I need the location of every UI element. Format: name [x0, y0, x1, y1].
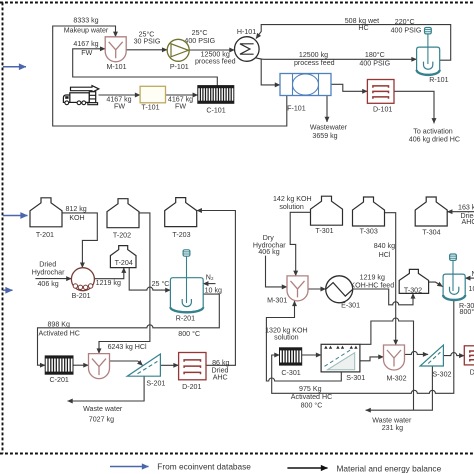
label 12500 kg process feed (P-H): [195, 50, 236, 65]
svg-text:process feed: process feed: [294, 59, 335, 67]
stream R-101 to H-101 hot return: [256, 25, 451, 61]
crusher-cooler C-301: [280, 348, 302, 365]
label 86 kg Dried AHC: [212, 359, 230, 382]
stream N2 to R-301: [465, 277, 474, 279]
svg-text:231 kg: 231 kg: [382, 424, 403, 432]
label C-201: [50, 376, 69, 384]
label 8333 kg: [73, 17, 98, 25]
svg-text:7027 kg: 7027 kg: [89, 415, 114, 423]
svg-text:30 PSIG: 30 PSIG: [134, 37, 161, 45]
label 812 kg KOH: [65, 205, 86, 222]
svg-text:B-201: B-201: [72, 292, 91, 300]
stream T-202 HCl to M-201: [99, 213, 150, 354]
tank T-203: [165, 198, 197, 227]
dryer D-303 (cut off): [464, 346, 474, 365]
svg-text:Wastewater: Wastewater: [310, 123, 348, 131]
svg-text:FW: FW: [175, 102, 186, 110]
stream dry hydrochar to M-301: [266, 256, 288, 287]
svg-text:Makeup water: Makeup water: [64, 27, 109, 35]
svg-text:HCl: HCl: [379, 251, 391, 259]
svg-text:R-101: R-101: [429, 76, 448, 84]
label E-301: [341, 302, 360, 310]
svg-text:C-201: C-201: [50, 376, 69, 384]
svg-text:400 PSIG: 400 PSIG: [184, 37, 215, 45]
label T-202: [113, 231, 131, 239]
label C-101: [206, 106, 225, 114]
mixer M-301: [287, 276, 308, 301]
svg-text:solution: solution: [274, 334, 299, 342]
motor of R-301: [450, 254, 457, 291]
svg-text:T-303: T-303: [360, 228, 378, 236]
stream H-101 to R-101 process feed: [256, 58, 417, 60]
stream T-301 KOH to M-301: [290, 212, 310, 276]
label D-303 (cut): [470, 369, 474, 377]
reactor R-101: [417, 47, 440, 75]
stream S-201 to D-201: [160, 364, 178, 366]
svg-text:M-302: M-302: [386, 375, 406, 383]
svg-text:8333 kg: 8333 kg: [73, 17, 98, 25]
heat exchanger E-301: [326, 276, 353, 303]
stream M-301 to E-301: [308, 288, 326, 290]
label Dried Hydrochar 406 kg: [32, 261, 65, 288]
label F-101: [287, 105, 306, 113]
stream T-303 HCl to M-302: [385, 213, 396, 345]
svg-text:T-101: T-101: [141, 104, 159, 112]
svg-text:KOH-HC feed: KOH-HC feed: [350, 281, 394, 289]
dryer D-201: [179, 353, 206, 380]
svg-text:25°C: 25°C: [192, 29, 208, 37]
svg-text:T-202: T-202: [113, 231, 131, 239]
stream F-101 wastewater out: [326, 96, 328, 123]
svg-text:Hydrochar: Hydrochar: [32, 268, 65, 276]
svg-text:To activation: To activation: [413, 128, 452, 136]
svg-text:400 PSIG: 400 PSIG: [391, 27, 422, 35]
svg-text:T-304: T-304: [422, 229, 440, 237]
svg-text:M-101: M-101: [106, 63, 126, 71]
svg-text:1219 kg: 1219 kg: [96, 279, 121, 287]
ecoinvent input arrow water: [3, 66, 26, 68]
crusher C-101: [198, 86, 234, 104]
svg-text:220°C: 220°C: [395, 18, 415, 26]
svg-text:H-101: H-101: [237, 28, 256, 36]
stream P-101 to H-101: [189, 49, 234, 51]
svg-text:P-101: P-101: [170, 63, 189, 71]
svg-text:S-201: S-201: [146, 380, 165, 388]
label H-101: [237, 28, 256, 36]
tank T-304: [415, 197, 447, 226]
svg-text:D-201: D-201: [182, 383, 201, 391]
label M-302: [386, 375, 406, 383]
stream dried hydrochar to B-201: [35, 278, 71, 280]
mixer M-302: [384, 345, 405, 370]
svg-text:3659 kg: 3659 kg: [312, 132, 337, 140]
stream C-201 to M-201: [73, 364, 89, 366]
label 4167 kg FW (T101-C101): [168, 95, 193, 110]
crusher-cooler C-201: [45, 356, 73, 374]
label M-301: [267, 296, 287, 304]
svg-text:AHC: AHC: [213, 374, 228, 382]
stream N2 to R-201: [203, 283, 215, 285]
label S-301: [346, 374, 365, 382]
tank T-204: [110, 246, 136, 268]
reactor R-201: [170, 278, 203, 313]
label T-201: [36, 231, 54, 239]
svg-text:800 °C: 800 °C: [178, 330, 200, 338]
label 142 kg KOH solution: [273, 195, 312, 211]
stream D-201 to T-203 recycle: [197, 211, 236, 366]
label 4167 kg FW (into M-101): [73, 40, 98, 57]
svg-text:406 kg dried HC: 406 kg dried HC: [409, 136, 460, 144]
stream S-302 to D-303: [443, 353, 464, 356]
svg-text:T-302: T-302: [404, 287, 422, 295]
label 898 Kg Activated HC: [38, 321, 79, 338]
stream T-101 to C-101: [166, 94, 198, 96]
stream R-201 to C-201 activated HC: [38, 294, 220, 365]
label M-101: [106, 63, 126, 71]
label 800 C (R-201 out): [178, 330, 200, 338]
label R-301 800C: [459, 302, 474, 316]
stream S-301 to M-302: [360, 357, 384, 361]
stream S-201 waste water: [68, 376, 145, 401]
label T-304: [422, 229, 440, 237]
svg-text:C-101: C-101: [206, 106, 225, 114]
label 1219 kg KOH-HC feed: [350, 273, 394, 289]
svg-text:process feed: process feed: [195, 57, 236, 65]
svg-text:12500 kg: 12500 kg: [299, 51, 328, 59]
svg-text:E-301: E-301: [341, 302, 360, 310]
svg-text:180°C: 180°C: [365, 51, 385, 59]
stream B-201 to T-204: [94, 268, 123, 279]
svg-text:25 °C: 25 °C: [152, 280, 170, 288]
label B-201: [72, 292, 91, 300]
svg-text:840 kg: 840 kg: [374, 242, 395, 250]
svg-text:FW: FW: [114, 102, 125, 110]
svg-text:HC: HC: [358, 24, 368, 32]
label Waste water 231 kg: [372, 416, 412, 432]
label D-201: [182, 383, 201, 391]
stream T-302 to R-301: [429, 282, 443, 287]
svg-text:T-203: T-203: [172, 231, 190, 239]
label N2 10 kg (R-301): [469, 270, 474, 293]
svg-text:S-302: S-302: [433, 371, 452, 379]
figure dashed border left: [2, 3, 4, 454]
label T-301: [315, 227, 333, 235]
label R-201: [176, 314, 195, 322]
reactor R-301: [443, 274, 465, 300]
svg-text:6243 kg HCl: 6243 kg HCl: [108, 343, 147, 351]
stream C-101 to M-101 food waste: [73, 49, 218, 86]
svg-text:S-301: S-301: [346, 374, 365, 382]
label 975 Kg Activated HC 800 C: [291, 385, 332, 410]
truck food-waste delivery icon: [63, 86, 98, 105]
svg-text:406 kg: 406 kg: [37, 280, 58, 288]
screen S-301: [321, 344, 360, 372]
svg-text:163 kg: 163 kg: [458, 203, 474, 211]
svg-text:C-301: C-301: [281, 369, 300, 377]
label To activation 406 kg dried HC: [409, 128, 460, 144]
legend arrow material and energy balance: [287, 467, 327, 469]
svg-text:10 kg: 10 kg: [205, 287, 222, 295]
heat exchanger H-101: [235, 37, 260, 62]
stream H-101 branch to F-101: [261, 59, 280, 85]
svg-text:898 Kg: 898 Kg: [47, 321, 70, 329]
stream C-301 to S-301: [302, 354, 321, 356]
label 508 kg wet HC: [345, 17, 379, 32]
legend text From ecoinvent database: [157, 462, 251, 472]
label T-302: [404, 287, 422, 295]
legend arrow from ecoinvent: [110, 466, 149, 468]
tank T-302: [399, 269, 428, 293]
figure dashed border top: [0, 2, 474, 4]
svg-text:800 °C: 800 °C: [301, 402, 323, 410]
svg-text:10 kg: 10 kg: [469, 285, 474, 293]
label 25 C 30 PSIG: [134, 30, 161, 45]
svg-text:4167 kg: 4167 kg: [73, 40, 98, 48]
svg-text:406 kg: 406 kg: [258, 248, 279, 256]
svg-text:Material and energy balance: Material and energy balance: [337, 463, 442, 473]
motor of R-101: [425, 28, 432, 65]
svg-text:N₂: N₂: [206, 273, 214, 281]
mixer M-101: [105, 37, 126, 62]
stream M-302 to S-302: [405, 351, 429, 354]
svg-text:D-101: D-101: [373, 106, 392, 114]
svg-text:FW: FW: [81, 49, 92, 57]
stream M-201 to S-201: [110, 361, 143, 365]
svg-text:From ecoinvent database: From ecoinvent database: [157, 462, 251, 472]
svg-text:975 Kg: 975 Kg: [299, 385, 322, 393]
label 180 C 400 PSIG: [359, 51, 390, 67]
label 1320 kg KOH solution: [265, 327, 308, 342]
label 4167 kg FW (truck-T101): [106, 95, 131, 110]
svg-text:1219 kg: 1219 kg: [360, 273, 385, 281]
svg-text:T-201: T-201: [36, 231, 54, 239]
label S-302: [433, 371, 452, 379]
label 840 kg HCl: [374, 242, 395, 259]
filter F-101: [280, 74, 331, 96]
svg-text:KOH: KOH: [69, 214, 84, 222]
mixer M-201: [89, 354, 110, 379]
svg-text:F-101: F-101: [287, 105, 306, 113]
label P-101: [170, 63, 189, 71]
pump P-101: [167, 39, 189, 61]
stream S-301 vent to waste: [360, 318, 414, 410]
stream S-302 waste water: [366, 366, 433, 410]
svg-text:Activated HC: Activated HC: [291, 393, 332, 401]
stream T-204 to R-201 25C: [129, 268, 170, 291]
label C-301: [281, 369, 300, 377]
label 163 kg Dried AHC: [458, 203, 474, 226]
label 25 C 400 PSIG: [184, 29, 215, 45]
stream F-101 to D-101: [331, 84, 367, 91]
label N2 10 kg: [205, 273, 222, 294]
svg-text:800°C: 800°C: [460, 308, 474, 316]
tank T-201: [30, 198, 62, 227]
label Dry Hydrochar 406 kg: [253, 234, 286, 256]
svg-text:R-201: R-201: [176, 314, 195, 322]
stream D-101 to activation: [394, 91, 434, 123]
label 25 C (R-201 feed): [152, 280, 170, 288]
tank T-303: [353, 197, 385, 226]
label 1219 kg: [96, 279, 121, 287]
stream T-201 KOH to B-201: [62, 213, 97, 268]
storage bin T-101: [140, 86, 165, 103]
label 220 C 400 PSIG: [391, 18, 422, 35]
label 6243 kg HCl: [108, 343, 147, 351]
svg-text:Waste water: Waste water: [83, 405, 123, 413]
svg-text:M-301: M-301: [267, 296, 287, 304]
separator S-302: [420, 345, 443, 366]
legend text Material and energy balance: [337, 463, 442, 473]
label T-101: [141, 104, 159, 112]
stream recycle water F-101 to M-101 makeup: [53, 26, 287, 126]
svg-text:D-3: D-3: [470, 369, 474, 377]
label T-203: [172, 231, 190, 239]
stream M-101 to P-101: [126, 49, 167, 51]
stream E-301 to T-302: [353, 289, 413, 305]
svg-text:400 PSIG: 400 PSIG: [359, 59, 390, 67]
stream S-301 KOH recycle to M-301: [266, 301, 341, 381]
dryer D-101: [367, 80, 394, 104]
figure dashed border bottom: [0, 453, 474, 455]
svg-text:Activated HC: Activated HC: [38, 330, 79, 338]
svg-text:T-204: T-204: [115, 259, 133, 267]
ecoinvent input arrow KOH: [3, 215, 28, 217]
tank T-301: [311, 196, 343, 225]
ball mill B-201: [71, 268, 94, 291]
svg-text:AHC: AHC: [462, 218, 474, 226]
label T-204: [115, 259, 133, 267]
stream R-301 to C-301 activated HC: [272, 300, 454, 393]
label R-101: [429, 76, 448, 84]
label Makeup water: [64, 27, 109, 35]
tank T-202: [107, 199, 139, 228]
stream recycle to T-304: [447, 211, 474, 213]
motor of R-201: [183, 250, 190, 303]
label D-101: [373, 106, 392, 114]
svg-text:142 kg KOH: 142 kg KOH: [273, 195, 312, 203]
ecoinvent input arrow hydrochar: [3, 289, 13, 291]
separator S-201: [127, 354, 160, 376]
svg-text:solution: solution: [279, 203, 304, 211]
svg-text:812 kg: 812 kg: [65, 205, 86, 213]
label T-303: [360, 228, 378, 236]
label Wastewater 3659 kg: [310, 123, 348, 140]
label S-201: [146, 380, 165, 388]
label 12500 kg process feed (H-R): [294, 51, 335, 67]
svg-text:T-301: T-301: [315, 227, 333, 235]
label Waste water 7027 kg: [83, 405, 123, 423]
stream truck to T-101: [99, 94, 141, 96]
